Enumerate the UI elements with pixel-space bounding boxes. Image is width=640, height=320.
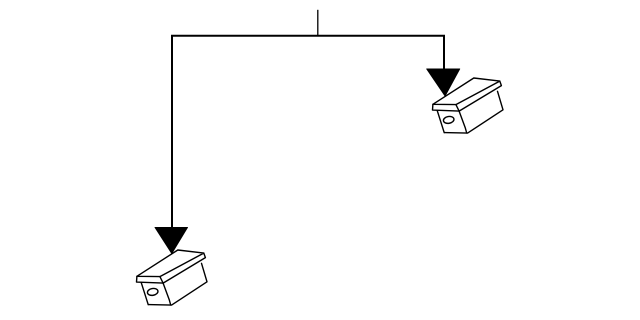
lid left end face — [137, 276, 164, 283]
lid right end face — [163, 253, 205, 283]
lid top face — [137, 250, 204, 277]
arrowhead left — [155, 227, 188, 253]
body left edge — [437, 111, 444, 133]
lid front corner edge — [160, 277, 171, 305]
wire: horizontal leader with left and right drops — [172, 36, 444, 229]
oval hole — [443, 116, 455, 125]
oval hole — [147, 288, 159, 297]
relay box right — [433, 78, 504, 133]
body bottom and right edges — [444, 91, 503, 133]
body bottom and right edges — [148, 263, 207, 305]
lid front corner edge — [456, 105, 467, 133]
body left edge — [141, 283, 148, 305]
lid top face — [433, 78, 500, 105]
wire: top tick — [317, 10, 319, 35]
arrowhead right — [427, 69, 460, 96]
relay box left — [137, 250, 208, 305]
lid left end face — [433, 104, 460, 111]
lid right end face — [459, 81, 501, 111]
